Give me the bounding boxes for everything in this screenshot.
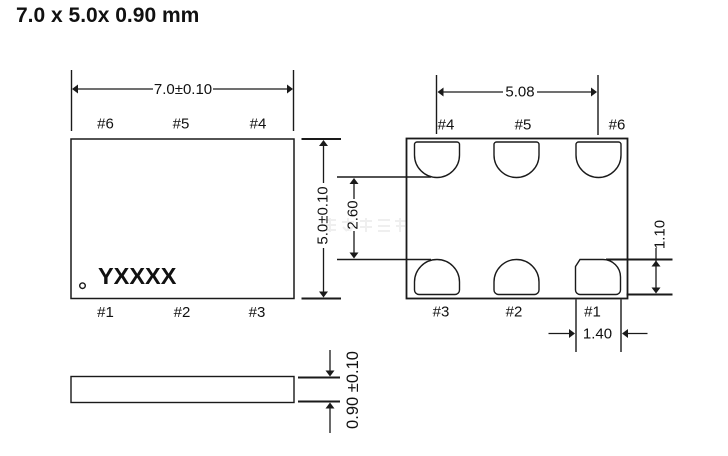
dim 7.0±0.10 extension line left [71,70,73,131]
arrowhead up [326,403,335,409]
arrowhead down [652,288,661,294]
dim 7.0±0.10 line [77,88,288,90]
dim 5.08 line [442,91,592,93]
svg-text:1.10: 1.10 [652,220,669,249]
dim 5.0±0.10 line [323,143,325,183]
arrowhead up [652,261,661,267]
svg-text:#3: #3 [249,304,266,321]
svg-text:5.08: 5.08 [505,84,534,101]
pad #4 (top-left) [415,142,460,178]
svg-text:5.0±0.10: 5.0±0.10 [315,186,332,244]
svg-text:#6: #6 [609,117,626,134]
package outline top view [71,139,294,299]
svg-text:#6: #6 [97,116,114,133]
pad #2 (bottom-middle) [494,260,539,295]
pad #1 (bottom-right, chamfer mark) [576,260,621,295]
arrowhead down [319,292,328,298]
dim 5.08 extension line left [436,75,438,134]
svg-text:YXXXX: YXXXX [98,263,177,289]
dim 2.60 ext line top [337,176,431,178]
dim 1.10 ext line bottom [627,294,673,296]
svg-text:#2: #2 [506,304,523,321]
arrowhead right [287,85,293,94]
svg-text:#5: #5 [173,116,190,133]
arrowhead left [72,85,78,94]
arrowhead down [350,253,359,259]
svg-text:#4: #4 [438,117,455,134]
dim 1.10 ext line top [606,259,673,261]
package outline bottom view [407,139,628,299]
svg-text:0.90 ±0.10: 0.90 ±0.10 [344,351,362,429]
dim 0.90 lower leader [329,407,331,433]
svg-text:#2: #2 [174,304,191,321]
dim 0.90 upper leader [329,350,331,372]
svg-text:2.60: 2.60 [345,200,362,229]
dim 1.40 ext line right [620,300,622,353]
dim 5.0±0.10 tick top [302,138,342,140]
dim 7.0±0.10 extension line right [293,70,295,131]
arrowhead right-pointing [569,329,575,338]
svg-text:1.40: 1.40 [583,326,612,343]
watermark [324,218,406,232]
dim 1.10 line [655,248,657,292]
dim 5.0±0.10 tick bottom [302,298,342,300]
dim 2.60 ext line bottom [337,259,431,261]
pad #3 (bottom-left) [415,260,460,295]
pin1 index circle [80,283,86,289]
svg-text:#5: #5 [515,117,532,134]
dim 5.08 extension line right [597,75,599,135]
svg-text:7.0 x 5.0x 0.90 mm: 7.0 x 5.0x 0.90 mm [16,4,199,27]
arrowhead left [438,88,444,97]
svg-text:#1: #1 [584,304,601,321]
pad #6 (top-right) [576,142,621,178]
dim 1.40 ext line left [575,300,577,353]
package outline side view [71,377,294,403]
dim 1.40 left leader [549,333,572,335]
arrowhead up [350,178,359,184]
arrowhead up [319,140,328,146]
dim 0.90 tick top [298,377,340,379]
arrowhead left-pointing [622,329,628,338]
svg-text:#1: #1 [97,304,114,321]
dim 1.40 right leader [626,333,648,335]
svg-text:#4: #4 [250,116,267,133]
svg-text:#3: #3 [433,304,450,321]
arrowhead down [326,371,335,377]
dim 2.60 line [353,181,355,199]
svg-text:7.0±0.10: 7.0±0.10 [154,81,212,98]
arrowhead right [591,88,597,97]
dim 0.90 tick bottom [298,401,340,403]
pad #5 (top-middle) [494,142,539,178]
